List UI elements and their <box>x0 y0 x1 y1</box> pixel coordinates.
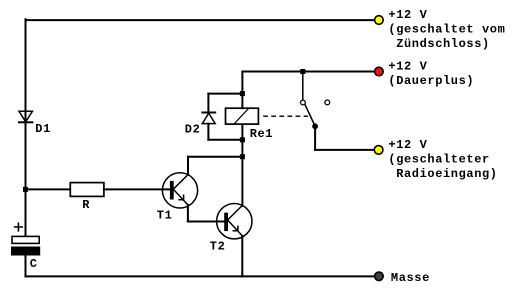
wire T2 emitter to ground rail <box>241 236 243 277</box>
mechanical link relay to switch (dashed) <box>263 115 308 117</box>
terminal +12V ignition <box>375 16 384 25</box>
label +12V ignition <box>388 8 505 51</box>
switch contact 1 (open circle) <box>301 100 306 105</box>
wire +12V Dauerplus rail <box>242 71 374 73</box>
capacitor C plus sign <box>15 223 23 231</box>
wire ground rail <box>26 275 375 277</box>
svg-text:+12 V: +12 V <box>388 60 427 74</box>
wire D2 bottom connection <box>208 139 242 141</box>
relay coil Re1 <box>226 108 259 124</box>
resistor R <box>70 183 104 197</box>
node D2 top junction <box>240 91 245 96</box>
wire T1 emitter down <box>187 205 189 222</box>
wire to radio terminal <box>315 149 374 151</box>
switch blade <box>305 105 315 126</box>
wire D2 anode vertical <box>207 124 209 140</box>
transistor T2 <box>217 204 252 239</box>
wire resistor to T1 base <box>104 188 170 190</box>
switch contact 2 (open circle) <box>325 100 330 105</box>
node switch branch junction <box>300 69 305 74</box>
capacitor C top plate <box>12 236 39 243</box>
svg-text:Zündschloss): Zündschloss) <box>396 37 490 51</box>
node left rail / resistor junction <box>23 187 28 192</box>
switch pole dot <box>312 123 318 129</box>
wire left rail vertical <box>25 19 27 236</box>
wire capacitor to ground rail <box>25 255 27 276</box>
terminal +12V Dauerplus <box>375 67 384 76</box>
label +12V Dauerplus <box>388 60 474 89</box>
terminal Masse <box>375 272 384 281</box>
svg-text:T1: T1 <box>157 209 173 223</box>
wire relay top vertical <box>241 72 243 109</box>
wire T1 collector to relay branch <box>188 156 242 158</box>
svg-text:(Dauerplus): (Dauerplus) <box>388 74 474 88</box>
svg-text:C: C <box>30 257 38 271</box>
svg-text:R: R <box>82 198 90 212</box>
svg-text:+12 V: +12 V <box>388 8 427 22</box>
wire D2 top connection <box>208 93 242 95</box>
svg-text:+12 V: +12 V <box>388 138 427 152</box>
svg-text:(geschaltet vom: (geschaltet vom <box>388 23 505 37</box>
wire relay branch vertical to T2 collector <box>241 124 243 205</box>
wire D2 cathode vertical <box>207 94 209 113</box>
diode D1 <box>19 111 32 122</box>
terminal +12V radio <box>374 146 383 155</box>
svg-text:D1: D1 <box>35 122 51 136</box>
svg-text:(geschalteter: (geschalteter <box>388 152 489 166</box>
svg-text:T2: T2 <box>210 240 226 254</box>
node D2 bottom junction <box>240 137 245 142</box>
node T1 collector / relay line <box>240 154 245 159</box>
transistor T1 <box>162 173 197 208</box>
wire switch pole down <box>314 126 316 150</box>
svg-text:Radioeingang): Radioeingang) <box>396 167 497 181</box>
svg-text:D2: D2 <box>185 123 201 137</box>
label +12V radio <box>388 138 497 181</box>
svg-text:Re1: Re1 <box>250 127 273 141</box>
wire node to resistor <box>26 188 71 190</box>
wire top rail (left rail to ignition terminal) <box>26 19 375 21</box>
capacitor C bottom plate <box>12 247 40 255</box>
wire T1 collector up <box>187 157 189 175</box>
switch contact wire from Dauerplus node <box>302 72 304 100</box>
svg-text:Masse: Masse <box>391 271 430 285</box>
diode D2 <box>202 113 215 124</box>
wire T1 emitter to T2 base <box>188 221 225 223</box>
